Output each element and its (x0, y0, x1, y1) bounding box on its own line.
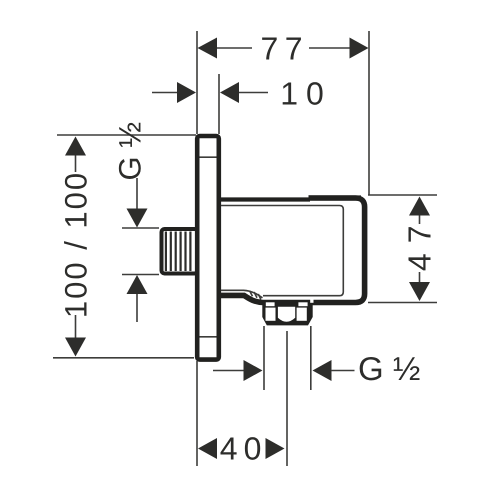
dimension 77: extension line right (body front) (368, 31, 370, 195)
svg-text:77: 77 (261, 31, 310, 67)
dimension 47: top tick line (368, 194, 437, 196)
dimension G 1/2 bottom: right arrowhead (pointing left) (313, 360, 332, 381)
dimension 47: top arrowhead (409, 197, 430, 216)
dimension 100/100: top arrowhead (65, 137, 86, 156)
svg-text:10: 10 (280, 76, 332, 112)
dimension 10: left arrowhead (outside, pointing right) (177, 82, 196, 103)
dimension 40: extension line left (wall face) (196, 361, 198, 466)
dimension 47: line stubs (419, 215, 421, 282)
dimension G 1/2 top: tick lines at thread (122, 228, 159, 275)
dimension 47: bottom tick line (368, 302, 437, 304)
svg-text:G ½: G ½ (358, 350, 420, 387)
dimension G 1/2 bottom: left arrowhead (pointing right) (244, 360, 263, 381)
dimension 40: left arrowhead (pointing left) (198, 438, 217, 459)
dimension 40: right arrowhead (pointing right) (266, 438, 285, 459)
dimension G 1/2 bottom: dimension line to label (331, 370, 355, 372)
outlet body (side profile) (220, 195, 365, 302)
dimension 77: extension line left (wall face) (196, 31, 198, 134)
svg-text:G ½: G ½ (113, 122, 148, 181)
dimension G 1/2 top: upper arrowhead (pointing down) (127, 209, 148, 228)
dimension 100/100: top tick line (57, 134, 196, 136)
hose outlet centerline (286, 331, 288, 466)
dimension 10: extension line right (plate face) (218, 74, 220, 134)
hose connector nut (G1/2 outlet) (262, 299, 313, 325)
dimension 77: dimension line segments (216, 47, 350, 49)
dimension G 1/2 bottom: extension lines under nut (264, 326, 311, 390)
svg-text:100 / 100: 100 / 100 (59, 171, 94, 318)
dimension 10: dimension line to label (239, 92, 268, 94)
dimension 100/100: bottom tick line (53, 357, 194, 359)
dimension G 1/2 top: leader line segments (136, 178, 138, 322)
dimension 100/100: bottom arrowhead (65, 338, 86, 357)
dimension 100/100: dimension line segments (75, 153, 77, 339)
dimension G 1/2 top: lower arrowhead (pointing up) (127, 275, 148, 294)
dimension 10: right arrowhead (outside, pointing left) (220, 82, 239, 103)
wall plate (escutcheon, side view) (197, 136, 219, 360)
svg-text:47: 47 (402, 216, 438, 272)
dimension 77: left arrowhead (198, 38, 218, 59)
dimension 47: bottom arrowhead (409, 282, 430, 301)
thread nipple G1/2 (hatched) (162, 229, 198, 274)
dimension 10: tail line left (152, 92, 178, 94)
svg-text:40: 40 (220, 431, 268, 467)
dimension G 1/2 bottom: tail line left (213, 370, 244, 372)
dimension 77: right arrowhead (350, 38, 369, 59)
